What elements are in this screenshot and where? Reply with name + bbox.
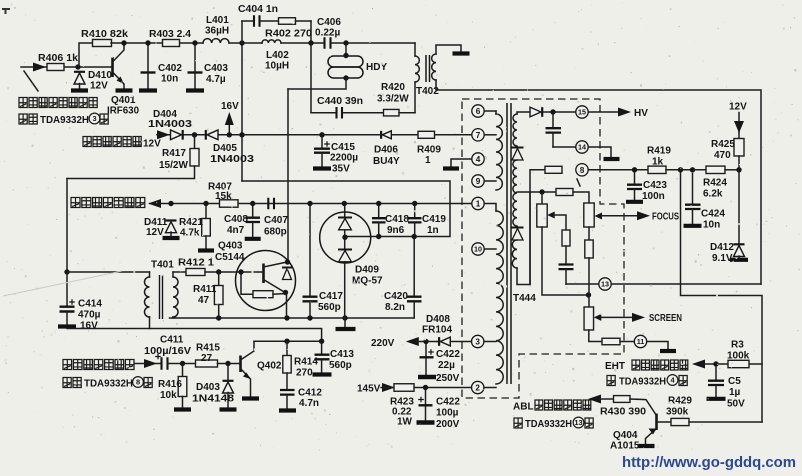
svg-text:C418: C418 bbox=[385, 214, 409, 225]
svg-text:C408: C408 bbox=[224, 214, 248, 225]
ground pin14 bbox=[604, 157, 620, 161]
wire HV winding bottom riser bbox=[517, 170, 545, 285]
plus C414 bbox=[69, 299, 75, 305]
transformer T401 core bbox=[160, 275, 163, 319]
winding T444 lower bbox=[496, 211, 503, 384]
svg-text:35V: 35V bbox=[332, 164, 350, 175]
arrowhead SCREEN bbox=[632, 313, 645, 322]
node divider bbox=[539, 189, 544, 194]
arrowhead FOCUS bbox=[637, 211, 650, 220]
node C402 top bbox=[145, 40, 150, 45]
ground C424 bbox=[684, 224, 702, 228]
arrowhead HV bbox=[618, 108, 631, 117]
svg-text:BU4Y: BU4Y bbox=[373, 156, 400, 167]
svg-text:D412: D412 bbox=[710, 242, 734, 253]
pin 10 bbox=[472, 243, 484, 255]
svg-text:390k: 390k bbox=[666, 407, 689, 418]
wire L402 to C406 bbox=[281, 42, 324, 44]
wire D412 stem bbox=[738, 170, 740, 244]
zener D411 bbox=[166, 221, 177, 233]
node C417 top bbox=[307, 201, 312, 206]
wire R424 to D412 bbox=[725, 169, 739, 171]
transistor Q402 bbox=[241, 341, 255, 397]
resistor R414 bbox=[283, 356, 291, 374]
core T444 bbox=[507, 103, 511, 384]
svg-text:C402: C402 bbox=[158, 63, 182, 74]
wire T401 sec bottom bbox=[172, 317, 174, 318]
resistor R409 bbox=[418, 131, 435, 138]
wire T401 sec to R412 bbox=[173, 271, 186, 273]
node D409 center bbox=[342, 235, 347, 240]
capacitor HV bbox=[546, 115, 562, 148]
svg-text:15: 15 bbox=[578, 108, 586, 117]
resistor R424 bbox=[706, 166, 725, 173]
wire T402 primary top stem bbox=[414, 43, 416, 56]
svg-text:R417: R417 bbox=[162, 148, 186, 159]
wire D408 to pin3 bbox=[451, 341, 472, 343]
node Q403 collector bbox=[285, 259, 290, 264]
wire left vertical x67 bbox=[66, 179, 68, 273]
capacitor C422b bbox=[417, 390, 435, 423]
svg-text:16V: 16V bbox=[80, 321, 98, 332]
text drive pulse input bbox=[63, 360, 134, 370]
wire 12V rail bbox=[157, 134, 472, 136]
zener D410 bbox=[74, 72, 85, 84]
node HDY top bbox=[343, 40, 348, 45]
ground D409 rail bbox=[336, 327, 356, 331]
wire R416 top stem bbox=[182, 364, 184, 378]
capacitor C402 bbox=[141, 46, 156, 88]
node C422b top bbox=[423, 385, 428, 390]
svg-text:10µH: 10µH bbox=[265, 61, 289, 72]
arrowhead 16V up bbox=[225, 112, 234, 125]
svg-text:A1015: A1015 bbox=[610, 441, 640, 452]
capacitor C413 bbox=[315, 341, 330, 373]
svg-text:SCREEN: SCREEN bbox=[649, 313, 682, 324]
svg-text:9.1V: 9.1V bbox=[712, 253, 733, 264]
ground D412 bbox=[730, 258, 748, 262]
node C420 top bbox=[412, 234, 417, 239]
wire Q403 internal res to emitter bbox=[273, 293, 285, 296]
svg-text:R403 2.4: R403 2.4 bbox=[149, 29, 191, 40]
svg-text:D406: D406 bbox=[374, 145, 398, 156]
svg-text:145V: 145V bbox=[357, 384, 381, 395]
capacitor C407 bbox=[268, 198, 274, 210]
capacitor C440 bbox=[337, 107, 343, 119]
wire D412 bottom stem bbox=[738, 256, 740, 258]
svg-text:C403: C403 bbox=[204, 63, 228, 74]
wire Q403 emitter down bbox=[286, 293, 288, 319]
wire branch left bbox=[242, 20, 253, 22]
svg-text:T444: T444 bbox=[513, 293, 536, 304]
wire R412 to base bbox=[205, 271, 241, 273]
svg-text:L401: L401 bbox=[206, 15, 229, 26]
wire pin8 node to EHT column bbox=[681, 170, 763, 422]
text EHT pin char bbox=[679, 376, 687, 386]
transformer T401 secondary bbox=[173, 277, 178, 317]
wire 16V arrow stem bbox=[228, 121, 230, 135]
wire HV winding top exit bbox=[517, 112, 531, 114]
svg-text:8: 8 bbox=[136, 378, 140, 387]
pin 1 bbox=[472, 197, 484, 209]
svg-text:4n7: 4n7 bbox=[227, 225, 245, 236]
wire L401 to junction bbox=[229, 42, 262, 44]
capacitor C423 bbox=[627, 172, 642, 200]
pin 15 bbox=[576, 106, 588, 118]
svg-text:10: 10 bbox=[474, 245, 482, 254]
svg-text:R424: R424 bbox=[703, 178, 727, 189]
transformer T402 core bbox=[426, 55, 430, 82]
diode D408 bbox=[439, 337, 450, 346]
wire pin8 rail bbox=[588, 169, 648, 171]
svg-text:R406 1k: R406 1k bbox=[38, 53, 78, 64]
arrowhead 12V down bbox=[734, 121, 744, 133]
svg-text:HDY: HDY bbox=[366, 62, 387, 73]
diode HV rectifier lower bbox=[512, 228, 524, 241]
svg-text:D408: D408 bbox=[426, 314, 450, 325]
svg-text:1N4003: 1N4003 bbox=[210, 154, 255, 165]
wire C406 to HDY bbox=[332, 42, 416, 44]
ground Q402 bbox=[242, 396, 259, 400]
node 16V arrow bbox=[227, 132, 232, 137]
capacitor C417 bbox=[303, 206, 318, 318]
svg-text:C413: C413 bbox=[330, 349, 354, 360]
node x681 top bbox=[678, 167, 683, 172]
scan mark top-left bbox=[2, 9, 10, 14]
wire ABL line bbox=[600, 398, 614, 400]
wire C440 left bbox=[311, 112, 336, 114]
text pincushion input line1 bbox=[19, 98, 97, 108]
wire divider to focus pot bbox=[573, 192, 589, 203]
svg-text:22µ: 22µ bbox=[438, 360, 455, 371]
node D403 top bbox=[225, 361, 230, 366]
ground pin4 bbox=[443, 166, 459, 170]
capacitor C408 bbox=[246, 206, 261, 237]
svg-text:D410: D410 bbox=[88, 70, 112, 81]
ground D403 bbox=[220, 407, 237, 411]
wire x242 vertical bbox=[241, 43, 243, 181]
svg-text:TDA9332H: TDA9332H bbox=[619, 377, 666, 388]
wire R421 top stem bbox=[205, 204, 207, 220]
wire 16V node to damper line bbox=[242, 181, 450, 237]
transformer T402 secondary bbox=[432, 54, 436, 80]
pin 3 bbox=[472, 335, 484, 347]
svg-text:C412: C412 bbox=[298, 388, 322, 399]
flyback T444 dashed outline bbox=[462, 99, 624, 398]
wire T401 sec top stem bbox=[172, 272, 174, 277]
svg-text:D409: D409 bbox=[355, 265, 379, 276]
svg-text:C415: C415 bbox=[331, 142, 355, 153]
wire HDY top stem bbox=[345, 43, 347, 56]
ground D411 bbox=[163, 236, 180, 240]
svg-text:1: 1 bbox=[425, 155, 431, 166]
node R411 top bbox=[216, 269, 221, 274]
svg-text:C5: C5 bbox=[728, 376, 741, 387]
svg-text:270: 270 bbox=[296, 368, 313, 379]
wire R429 to column bbox=[689, 421, 762, 423]
wire pin9 stub bbox=[484, 180, 496, 182]
svg-text:7: 7 bbox=[476, 131, 481, 140]
resistor R426 focus feed bbox=[545, 166, 562, 173]
wire screen wiper bbox=[601, 316, 633, 318]
wire D409 gnd stem bbox=[344, 318, 346, 327]
svg-text:L402: L402 bbox=[266, 50, 289, 61]
wire R416 bottom stem bbox=[182, 397, 184, 409]
svg-text:470: 470 bbox=[714, 150, 731, 161]
arrowhead input pincushion bbox=[33, 63, 46, 72]
resistor R421 bbox=[202, 219, 211, 237]
svg-text:47: 47 bbox=[198, 295, 210, 306]
arrowhead drive input bbox=[144, 359, 157, 368]
svg-text:100µ: 100µ bbox=[436, 408, 459, 419]
wire R420 to T402 bbox=[399, 112, 415, 114]
arrowhead pot1 wiper bbox=[547, 212, 555, 219]
ground C412 bbox=[279, 408, 296, 412]
capacitor C418 bbox=[372, 206, 386, 237]
wire 220V to D408 bbox=[437, 341, 440, 343]
wire C411 to R415 bbox=[168, 363, 196, 365]
svg-text:C414: C414 bbox=[78, 299, 102, 310]
arrowhead 220V bbox=[406, 337, 419, 346]
svg-text:Q403: Q403 bbox=[218, 241, 243, 252]
svg-text:100k: 100k bbox=[727, 351, 750, 362]
wire R414 top stem bbox=[286, 341, 288, 356]
svg-text:4.7k: 4.7k bbox=[180, 228, 200, 239]
winding T444 HV middle bbox=[513, 160, 517, 226]
pin 8 bbox=[576, 164, 588, 176]
wire riser to R410 bbox=[79, 43, 92, 67]
svg-text:Q402: Q402 bbox=[257, 361, 282, 372]
resistor R403 bbox=[163, 40, 180, 47]
resistor below pot1 wiper bbox=[562, 230, 570, 246]
resistor R420 bbox=[384, 109, 400, 116]
svg-text:12V: 12V bbox=[143, 139, 161, 150]
resistor R430 bbox=[614, 396, 631, 403]
wire R419 to R424 bbox=[666, 169, 706, 171]
potentiometer SCREEN body bbox=[584, 307, 594, 330]
node HDY bottom bbox=[343, 75, 348, 80]
node damper line C418 bbox=[376, 234, 381, 239]
svg-text:9: 9 bbox=[476, 177, 481, 186]
node R411 bottom bbox=[216, 315, 221, 320]
resistor R406 bbox=[47, 64, 64, 71]
node C423 top bbox=[632, 167, 637, 172]
wire pot1 top stem bbox=[541, 192, 543, 204]
svg-text:100µ/16V: 100µ/16V bbox=[144, 346, 191, 357]
svg-text:27: 27 bbox=[201, 353, 213, 364]
node Q403 base bbox=[238, 269, 243, 274]
annotation slash bbox=[24, 71, 38, 91]
capacitor C411 bbox=[162, 357, 168, 370]
svg-text:4: 4 bbox=[476, 155, 481, 164]
svg-text:100n: 100n bbox=[642, 191, 665, 202]
node D411 top bbox=[168, 201, 173, 206]
wire primary top stem bbox=[495, 111, 497, 114]
svg-text:Q404: Q404 bbox=[613, 430, 638, 441]
circled 13 ABL bbox=[573, 417, 584, 428]
wire T402 secondary top to ground bbox=[436, 45, 461, 54]
wire D413 to pin15 bbox=[542, 111, 576, 113]
node C424 top bbox=[690, 167, 695, 172]
wire T401 primary top stem bbox=[149, 272, 151, 277]
wire R414 bottom stem bbox=[286, 373, 288, 390]
ground C415 bbox=[313, 166, 331, 170]
wire D409 mid bbox=[344, 230, 346, 249]
svg-text:560p: 560p bbox=[329, 360, 352, 371]
svg-text:R3: R3 bbox=[731, 340, 744, 351]
svg-text:HV: HV bbox=[634, 108, 648, 119]
svg-text:FR104: FR104 bbox=[422, 325, 452, 336]
wire R415 to base bbox=[218, 363, 241, 365]
svg-text:C420: C420 bbox=[384, 291, 408, 302]
svg-text:470µ: 470µ bbox=[78, 310, 101, 321]
tick near pin8 bbox=[577, 179, 580, 186]
capacitor C406 bbox=[325, 37, 331, 49]
svg-text:12V: 12V bbox=[729, 102, 747, 113]
node C5 top bbox=[713, 361, 718, 366]
wire D403 stem bbox=[227, 364, 229, 381]
wire 220V line bbox=[416, 341, 437, 343]
wire pin6 stub bbox=[484, 110, 496, 112]
wire R411 top stem bbox=[218, 272, 220, 286]
svg-text:220V: 220V bbox=[371, 338, 395, 349]
svg-text:TDA9332H: TDA9332H bbox=[40, 115, 89, 126]
ground C5 bbox=[707, 397, 726, 401]
wire D411 stem bbox=[170, 232, 172, 237]
wire C412 bottom stem bbox=[286, 395, 288, 409]
wire EHT line bbox=[704, 363, 762, 365]
wire 12V arrow stem bbox=[738, 113, 740, 133]
resistor divider series bbox=[556, 189, 573, 196]
resistor R417 bbox=[190, 149, 199, 167]
pin 9 bbox=[472, 175, 484, 187]
svg-text:4.7n: 4.7n bbox=[299, 398, 319, 409]
svg-text:R425: R425 bbox=[711, 139, 735, 150]
svg-text:R420: R420 bbox=[381, 82, 405, 93]
svg-text:C5144: C5144 bbox=[215, 252, 245, 263]
wire pin4 to ground bbox=[451, 159, 472, 167]
wire T402 secondary bottom to right box bbox=[436, 80, 761, 284]
wire T401 primary bottom bbox=[149, 317, 151, 329]
svg-text:6: 6 bbox=[476, 107, 481, 116]
node screen divider bbox=[586, 292, 591, 297]
node C417 bottom bbox=[307, 315, 312, 320]
node Q401 collector rail bbox=[121, 40, 126, 45]
svg-text:C422: C422 bbox=[436, 349, 460, 360]
ground C403 bbox=[186, 88, 204, 92]
wire pin3 stub bbox=[484, 341, 496, 343]
svg-text:250V: 250V bbox=[436, 373, 460, 384]
wire C440 to R420 bbox=[343, 112, 384, 114]
capacitor C419 bbox=[408, 206, 422, 237]
wire emitter rail bbox=[170, 317, 414, 319]
wire pin13 right bbox=[611, 283, 761, 285]
wire branch riser left bbox=[241, 21, 243, 43]
node emitter rail x287 bbox=[284, 315, 289, 320]
wire supply to T401 primary bbox=[67, 271, 150, 273]
svg-text:R416: R416 bbox=[158, 379, 182, 390]
arrowhead ABL bbox=[588, 395, 601, 404]
svg-text:10n: 10n bbox=[703, 220, 720, 231]
potentiometer P1 body bbox=[537, 204, 547, 227]
text pin char2 bbox=[144, 378, 152, 388]
svg-text:1n: 1n bbox=[427, 225, 439, 236]
transformer T401 primary bbox=[145, 277, 150, 317]
ground C414 bbox=[58, 324, 76, 328]
svg-text:4.7µ: 4.7µ bbox=[206, 74, 226, 85]
wire D409 top stem bbox=[344, 204, 346, 218]
resistor R3 bbox=[728, 360, 749, 367]
svg-text:IRF630: IRF630 bbox=[107, 106, 139, 117]
node D412 top bbox=[736, 167, 741, 172]
wire branch right bbox=[296, 20, 312, 22]
svg-text:1µ: 1µ bbox=[729, 387, 741, 398]
wire pin15 to arrow bbox=[588, 111, 620, 113]
wire pot1 bottom bbox=[542, 227, 587, 295]
node rail x242 bbox=[239, 132, 244, 137]
wire pin11 to ground bbox=[647, 342, 668, 350]
pin 6 bbox=[472, 105, 484, 117]
wire HDY bottom to collector riser bbox=[288, 78, 346, 89]
node input junction bbox=[75, 64, 80, 69]
svg-text:0.22µ: 0.22µ bbox=[315, 28, 340, 39]
svg-text:8.2n: 8.2n bbox=[385, 302, 405, 313]
wire R411 bottom stem bbox=[218, 305, 220, 319]
resistor R423 bbox=[394, 384, 414, 392]
svg-text:13: 13 bbox=[574, 418, 582, 427]
svg-text:C411: C411 bbox=[160, 335, 184, 346]
transformer T402 primary bbox=[415, 56, 419, 82]
svg-text:1N4148: 1N4148 bbox=[192, 394, 235, 405]
diode Q403 damper bbox=[282, 268, 292, 280]
diode module D409 circle bbox=[320, 212, 371, 263]
svg-text:36µH: 36µH bbox=[205, 26, 229, 37]
node C422a top bbox=[423, 339, 428, 344]
wire Q402 collector line bbox=[254, 340, 322, 342]
wire R417 top stem bbox=[194, 135, 196, 149]
text to TDA EHT prefix bbox=[607, 376, 615, 386]
wire R421 bottom stem bbox=[205, 236, 207, 249]
diode D405 bbox=[206, 130, 218, 140]
wire R428 to pin11 bbox=[620, 341, 634, 343]
zener D412 bbox=[734, 244, 745, 256]
resistor R425 bbox=[734, 139, 744, 157]
svg-text:C423: C423 bbox=[643, 180, 667, 191]
wire 145V line bbox=[381, 387, 472, 389]
ground T402 bbox=[453, 51, 470, 55]
svg-text:R419: R419 bbox=[647, 146, 671, 157]
svg-text:FOCUS: FOCUS bbox=[652, 212, 679, 223]
plus C422b bbox=[418, 397, 424, 403]
pin 4 bbox=[472, 153, 484, 165]
capacitor C5 bbox=[708, 367, 724, 398]
capacitor C422a bbox=[418, 344, 436, 377]
wire D403 bottom stem bbox=[227, 393, 229, 409]
circled 4 EHT bbox=[667, 375, 678, 386]
zener D403 bbox=[223, 381, 234, 393]
ground C402 bbox=[139, 88, 157, 92]
wire R425 bottom stem bbox=[738, 156, 740, 170]
svg-text:2: 2 bbox=[475, 383, 480, 392]
svg-text:C404 1n: C404 1n bbox=[238, 4, 278, 15]
resistor Q403 internal bbox=[253, 291, 273, 298]
node R421 top bbox=[203, 201, 208, 206]
svg-text:9n6: 9n6 bbox=[387, 225, 405, 236]
node C413 top bbox=[319, 339, 324, 344]
node C408 top bbox=[250, 201, 255, 206]
resistor R415 bbox=[196, 360, 218, 367]
svg-text:11: 11 bbox=[637, 337, 645, 346]
